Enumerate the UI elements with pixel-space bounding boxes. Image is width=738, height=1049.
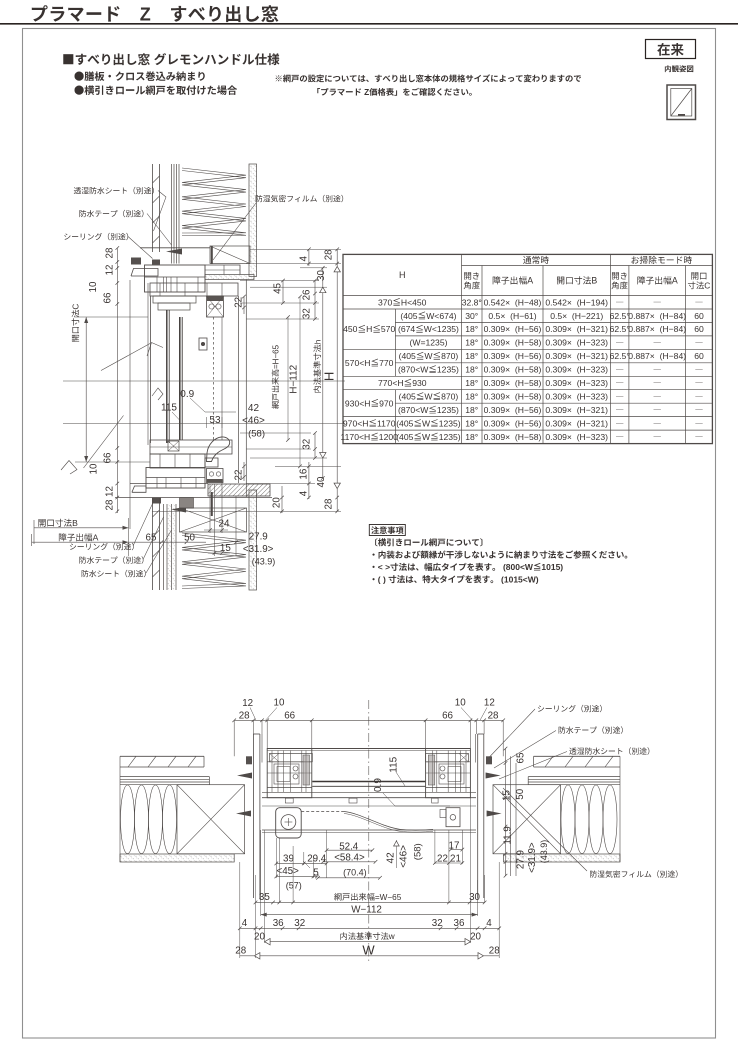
vs head frame drip (131, 269, 158, 277)
svg-text:C: C (704, 281, 710, 291)
svg-text:(405: (405 (400, 311, 417, 321)
svg-text:35: 35 (259, 892, 270, 903)
hs frame interior lines (262, 791, 476, 793)
svg-text:(57): (57) (286, 881, 302, 891)
vs leader bousui tape bottom (79, 556, 86, 563)
svg-text:0.309× (H−58): 0.309× (H−58) (484, 392, 542, 402)
hs screen mesh (301, 811, 344, 813)
vs bottom wall insulation (182, 533, 246, 586)
hs right wall framing block (493, 785, 561, 854)
svg-text:36: 36 (454, 918, 465, 929)
svg-text:W: W (424, 351, 433, 361)
vs sill fixing arrow (171, 507, 186, 513)
vs dim label 32 bottom (302, 439, 313, 450)
svg-text:0.542× (H−194): 0.542× (H−194) (545, 297, 608, 307)
hs right fixing arrows (486, 773, 501, 779)
vs dim label 66 top-left (103, 292, 114, 303)
svg-text:11.9: 11.9 (503, 826, 514, 844)
section heading (63, 54, 73, 64)
svg-text:0.309× (H−58): 0.309× (H−58) (484, 338, 542, 348)
svg-text:H<450: H<450 (401, 297, 427, 307)
vs opening dim C line (85, 317, 87, 462)
svg-text:0.309× (H−323): 0.309× (H−323) (545, 432, 608, 442)
svg-text:770<H: 770<H (378, 378, 404, 388)
vs screen bottom box (207, 469, 224, 483)
svg-text:66: 66 (103, 292, 114, 303)
hs mid dim 0.9 (373, 778, 384, 792)
vs bottom wall framing block (180, 508, 247, 532)
vs screen mesh dashed (213, 317, 215, 440)
notes line 4 (372, 578, 374, 580)
vs glass pane (179, 317, 181, 440)
vs top wall sheathing lines (171, 164, 173, 264)
svg-text:60: 60 (694, 324, 704, 334)
vs dim line left outer (129, 280, 131, 529)
hs wall edge left (119, 756, 121, 862)
svg-text:Z: Z (362, 87, 369, 97)
vs leader boushitsu film (256, 195, 263, 202)
svg-text:<31.9>: <31.9> (243, 544, 274, 555)
vs leader sealing top (64, 233, 70, 239)
svg-text:18°: 18° (465, 351, 478, 361)
hs screen latch right (446, 808, 460, 827)
vs dim 27.9 31.9 43.9 (235, 496, 237, 556)
vs dim 32-16 line right bottom (314, 433, 316, 458)
hs left wall inner board (120, 854, 234, 862)
svg-text:12: 12 (242, 698, 253, 709)
svg-text:(70.4): (70.4) (343, 867, 367, 877)
hs dim line naiho kijun w (265, 941, 471, 943)
vs dim label 16 bottom (299, 468, 310, 479)
svg-text:22: 22 (234, 470, 245, 481)
vs head sealing (152, 260, 160, 265)
svg-text:10: 10 (274, 698, 285, 709)
svg-text:28: 28 (489, 945, 500, 956)
vs dim 15 (214, 484, 216, 556)
svg-text:< >: < > (378, 562, 390, 572)
svg-text:1170<H: 1170<H (341, 432, 371, 442)
hs dim label 50 right (515, 788, 526, 799)
svg-text:970<H: 970<H (343, 419, 369, 429)
hs left casing (252, 734, 254, 898)
hs right jamb (426, 749, 471, 798)
svg-text:=W−65: =W−65 (375, 893, 402, 902)
vs leader 115 (172, 412, 180, 420)
hs right dim verticals (505, 749, 507, 877)
vs top wall siding lines (152, 164, 154, 252)
vs dim label 66 bottom-left (103, 452, 114, 463)
table grid (462, 265, 713, 267)
svg-text:1235): 1235) (439, 432, 461, 442)
vs dim label 45 (273, 282, 284, 293)
naikan label (665, 65, 671, 72)
svg-text:A: A (527, 276, 533, 286)
svg-text:36: 36 (273, 918, 284, 929)
svg-text:32.8°: 32.8° (462, 297, 482, 307)
vs head frame body (145, 265, 206, 292)
svg-text:4: 4 (299, 490, 310, 496)
svg-text:32: 32 (432, 918, 443, 929)
svg-text:39: 39 (283, 854, 294, 865)
svg-text:66: 66 (284, 710, 295, 721)
svg-text:4: 4 (299, 255, 310, 261)
vs dim label 28 bottom-left (105, 499, 116, 510)
svg-text:12: 12 (484, 698, 495, 709)
svg-text:1235): 1235) (439, 419, 461, 429)
vs screen inner frame line (221, 317, 223, 440)
svg-text:10: 10 (88, 281, 99, 292)
vs leader sealing bottom (70, 543, 76, 549)
svg-text:0.309× (H−58): 0.309× (H−58) (484, 432, 542, 442)
svg-text:16: 16 (299, 468, 310, 479)
svg-text:30°: 30° (465, 311, 478, 321)
hs dim line 4 36 32 row (240, 927, 499, 929)
svg-text:W: W (362, 943, 375, 958)
hs left wall sheathing (120, 776, 209, 778)
svg-text:18°: 18° (465, 378, 478, 388)
vs leader bousui sheet bottom (82, 570, 89, 577)
vs dim label 30 right (316, 270, 327, 281)
vs bottom wall inner board (249, 490, 257, 590)
svg-text:32: 32 (294, 918, 305, 929)
svg-text:(W=1235): (W=1235) (410, 338, 448, 348)
vs naiho kijun h dim line (322, 268, 324, 478)
svg-text:32: 32 (302, 439, 313, 450)
vs top wall inner board (249, 164, 257, 277)
svg-text:4: 4 (486, 918, 492, 929)
svg-text:1235): 1235) (437, 405, 459, 415)
svg-text:26: 26 (302, 289, 313, 300)
vs label kaikou sunpou B (38, 519, 45, 527)
svg-text:W<1235): W<1235) (424, 324, 459, 334)
vs dim label 10 top-left (88, 281, 99, 292)
svg-text:0.5× (H−61): 0.5× (H−61) (488, 311, 536, 321)
svg-text:0.309× (H−321): 0.309× (H−321) (545, 324, 608, 334)
svg-text:<31.9>: <31.9> (527, 842, 538, 873)
hs dim label 11.9 right (503, 826, 514, 844)
hs top dim ext verticals (233, 720, 235, 756)
hs dim label 15 right (502, 790, 513, 801)
hs screen track lines (262, 805, 476, 807)
svg-text:<45>: <45> (277, 866, 300, 877)
svg-text:(870<W: (870<W (398, 365, 429, 375)
window pictogram (667, 85, 696, 120)
svg-text:12: 12 (105, 486, 116, 497)
svg-text:W<674): W<674) (426, 311, 456, 321)
note line 1 (276, 75, 282, 81)
svg-text:(405: (405 (396, 432, 413, 442)
zairai box (646, 40, 696, 59)
vs open sash projection (101, 344, 150, 371)
svg-text:W: W (424, 392, 433, 402)
hs dim line W (240, 955, 499, 957)
svg-text:28: 28 (324, 249, 335, 260)
svg-text:22: 22 (234, 297, 245, 308)
svg-text:370: 370 (378, 297, 393, 307)
svg-text:62.5°: 62.5° (610, 324, 630, 334)
svg-text:0.309× (H−58): 0.309× (H−58) (484, 365, 542, 375)
svg-text:B: B (591, 276, 597, 286)
svg-text:H: H (322, 372, 337, 381)
hs dim 42 46 58 rotated (386, 852, 397, 864)
vs dim label 4 bottom (299, 490, 310, 496)
vs sill sealing (152, 498, 161, 504)
vs dim 26-32 line right top (314, 281, 316, 320)
svg-text:w: w (388, 932, 395, 941)
svg-text:970: 970 (379, 398, 394, 408)
svg-text:( ): ( ) (378, 574, 388, 584)
svg-text:50: 50 (515, 788, 526, 799)
svg-text:0.9: 0.9 (180, 389, 194, 400)
svg-text:C: C (72, 304, 81, 310)
vs sill top line (130, 483, 208, 485)
hs right casing (477, 734, 479, 898)
hs right wall inner board (503, 854, 620, 862)
svg-text:28: 28 (488, 710, 499, 721)
vs leader toshitsu bousui sheet (74, 187, 81, 194)
hs dim line amido dekihaba (256, 901, 485, 903)
vs bottom wall sheathing (163, 504, 165, 590)
vs head seal backer (131, 258, 141, 265)
svg-text:15: 15 (220, 543, 231, 554)
page title (32, 5, 48, 21)
bullet 2 (75, 86, 84, 95)
svg-text:(1015<W): (1015<W) (499, 574, 539, 584)
vs dim line left main (116, 248, 118, 513)
vs dim label 22 top (234, 297, 245, 308)
svg-text:H−112: H−112 (289, 364, 300, 393)
vs top wall framing block (210, 246, 250, 264)
svg-text:H: H (366, 324, 372, 334)
svg-text:h: h (313, 339, 322, 344)
svg-text:(405: (405 (396, 419, 413, 429)
svg-text:(58): (58) (412, 843, 423, 860)
svg-text:42: 42 (248, 403, 260, 414)
vs head screen top box (207, 296, 224, 317)
svg-text:0.309× (H−323): 0.309× (H−323) (545, 365, 608, 375)
hs right wall siding (534, 755, 620, 757)
hs leader sheet right (569, 748, 576, 755)
vs dim label 20 bottom (272, 497, 283, 508)
svg-text:30: 30 (316, 270, 327, 281)
svg-text:W: W (422, 432, 431, 442)
hs dim label 65 right (516, 752, 527, 763)
hs screen housing left (276, 808, 302, 838)
notes line 1 (375, 538, 377, 546)
svg-text:18°: 18° (465, 324, 478, 334)
vs label H-112 (289, 364, 300, 393)
vs sash outer face (166, 310, 168, 443)
vs operator handle (207, 437, 230, 462)
svg-text:B: B (72, 518, 78, 528)
svg-text:0.309× (H−58): 0.309× (H−58) (484, 378, 542, 388)
svg-text:45: 45 (273, 282, 284, 293)
svg-text:(870<W: (870<W (398, 405, 429, 415)
vs head sash top rail (150, 283, 238, 296)
svg-text:18°: 18° (465, 419, 478, 429)
hs frame head lines (267, 748, 470, 750)
notes line 3 (372, 566, 374, 568)
hs right wall sheathing (528, 776, 620, 778)
vs dim label 4 top (299, 255, 310, 261)
svg-text:0.309× (H−56): 0.309× (H−56) (484, 419, 542, 429)
svg-text:930<H: 930<H (345, 398, 371, 408)
svg-text:53: 53 (209, 415, 221, 426)
hs left wall insulation (121, 785, 135, 854)
hs left fixing arrows (237, 773, 252, 779)
svg-text:570<H: 570<H (345, 358, 371, 368)
svg-text:0.887× (H−84): 0.887× (H−84) (628, 311, 686, 321)
svg-text:0.309× (H−323): 0.309× (H−323) (545, 338, 608, 348)
svg-text:(43.9): (43.9) (539, 840, 549, 864)
svg-text:18°: 18° (465, 338, 478, 348)
svg-text:A: A (93, 533, 99, 543)
svg-text:1015): 1015) (541, 562, 563, 572)
svg-text:62.5°: 62.5° (610, 311, 630, 321)
hs left wall framing block (177, 785, 245, 854)
svg-text:12: 12 (105, 265, 116, 276)
svg-text:20: 20 (254, 932, 265, 943)
notes heading box (369, 525, 405, 536)
svg-text:18°: 18° (465, 432, 478, 442)
svg-text:0.5× (H−221): 0.5× (H−221) (550, 311, 603, 321)
svg-text:1235): 1235) (437, 365, 459, 375)
svg-text:0.542× (H−48): 0.542× (H−48) (484, 297, 542, 307)
svg-text:27.9: 27.9 (516, 850, 527, 869)
vs label shouji debaba A (59, 533, 67, 541)
vs head wall line (140, 247, 210, 249)
svg-text:40: 40 (316, 476, 327, 487)
hs dim label 43.9 right (539, 840, 549, 864)
vs dim 53 ext (206, 417, 208, 428)
svg-text:0.309× (H−321): 0.309× (H−321) (545, 405, 608, 415)
vs dim label 26 (302, 289, 313, 300)
vs leader bousui tape top (79, 210, 86, 217)
svg-text:1170: 1170 (377, 419, 396, 429)
svg-text:(674: (674 (398, 324, 415, 334)
hs glass pane (312, 781, 425, 783)
svg-text:(58): (58) (248, 429, 265, 440)
svg-text:50: 50 (184, 533, 195, 544)
svg-text:H: H (399, 270, 406, 280)
hs wall edge right (619, 756, 621, 862)
svg-text:0.309× (H−56): 0.309× (H−56) (484, 405, 542, 415)
svg-text:29.4: 29.4 (307, 854, 327, 865)
svg-text:10: 10 (89, 463, 100, 474)
vs head glazing bead upper (153, 296, 196, 303)
vs head fixing arrow (166, 249, 182, 255)
svg-text:870): 870) (441, 351, 458, 361)
title rule (0, 23, 738, 25)
table header tsujo (523, 256, 531, 264)
table header row2 (464, 272, 471, 279)
svg-text:10: 10 (455, 698, 466, 709)
svg-text:570: 570 (381, 324, 396, 334)
vs dim 65-50 line (129, 541, 207, 543)
hs leader sealing right (538, 705, 544, 711)
svg-text:W−112: W−112 (351, 904, 382, 915)
svg-text:28: 28 (239, 710, 250, 721)
vs sill frame body (146, 468, 205, 489)
hs dim label 27.9 right (516, 850, 527, 869)
svg-text:30: 30 (469, 892, 480, 903)
svg-text:60: 60 (694, 351, 704, 361)
svg-text:28: 28 (105, 247, 116, 258)
vs dim label 28 top-left (105, 247, 116, 258)
svg-text:24: 24 (219, 519, 230, 530)
hs center line (368, 700, 370, 962)
vs dim label 32 top (302, 308, 313, 319)
notes line 2 (372, 553, 374, 555)
svg-text:28: 28 (324, 498, 335, 509)
svg-text:450: 450 (343, 324, 358, 334)
svg-text:4: 4 (242, 918, 248, 929)
svg-text:(405: (405 (399, 392, 416, 402)
vs head frame interior step (205, 265, 240, 275)
table header osoji (631, 256, 638, 263)
svg-text:0.309× (H−321): 0.309× (H−321) (545, 419, 608, 429)
svg-text:60: 60 (694, 311, 704, 321)
vs dim label 12 bottom-left (105, 486, 116, 497)
svg-text:0.309× (H−56): 0.309× (H−56) (484, 351, 542, 361)
hs mid dim 115 (389, 756, 400, 772)
vs dim label 22 bottom (234, 470, 245, 481)
hs frame clips (285, 798, 293, 803)
svg-text:28: 28 (235, 945, 246, 956)
vs lock keeper (199, 338, 207, 350)
vs sill drip (132, 486, 146, 492)
svg-text:=H−65: =H−65 (271, 344, 280, 369)
svg-text:Z: Z (140, 5, 151, 25)
vs right ext lines (250, 248, 341, 250)
vs leader 0.9 (190, 398, 236, 412)
vs dim label 40 right (316, 476, 327, 487)
vs casing verticals (237, 296, 239, 483)
vs top wall insulation batt (182, 168, 246, 233)
vs sill board hatched (208, 484, 270, 496)
vs frame inner face verticals (147, 283, 149, 445)
svg-text:0.887× (H−84): 0.887× (H−84) (628, 324, 686, 334)
vs label H (322, 372, 337, 381)
vs top wall siding hatch ticks (153, 176, 160, 183)
vs dim label 12 top-left (105, 265, 116, 276)
vs bottom wall sole plate (180, 498, 194, 509)
svg-text:18°: 18° (465, 365, 478, 375)
vs head screw pin (211, 246, 213, 264)
svg-text:18°: 18° (465, 392, 478, 402)
vs dim label 28 bottom-right (324, 498, 335, 509)
hs left wall siding (120, 755, 204, 757)
svg-text:A: A (672, 276, 678, 286)
vs head casing strip (205, 275, 254, 280)
hs top dim line (234, 719, 503, 721)
svg-text:20: 20 (470, 932, 481, 943)
vs dim label 28 top-right (324, 249, 335, 260)
svg-text:770: 770 (379, 358, 394, 368)
svg-text:42: 42 (386, 852, 397, 864)
svg-text:0.309× (H−56): 0.309× (H−56) (484, 324, 542, 334)
svg-text:27.9: 27.9 (249, 532, 268, 543)
hs dim label 31.9 right (527, 842, 538, 873)
hs leader film right (590, 870, 597, 877)
svg-text:32: 32 (302, 308, 313, 319)
svg-text:0.309× (H−321): 0.309× (H−321) (545, 351, 608, 361)
svg-text:(800<W: (800<W (501, 562, 534, 572)
svg-text:870): 870) (441, 392, 458, 402)
vs dim 24 (209, 484, 211, 533)
vs H dim line (336, 249, 338, 511)
svg-text:66: 66 (442, 710, 453, 721)
